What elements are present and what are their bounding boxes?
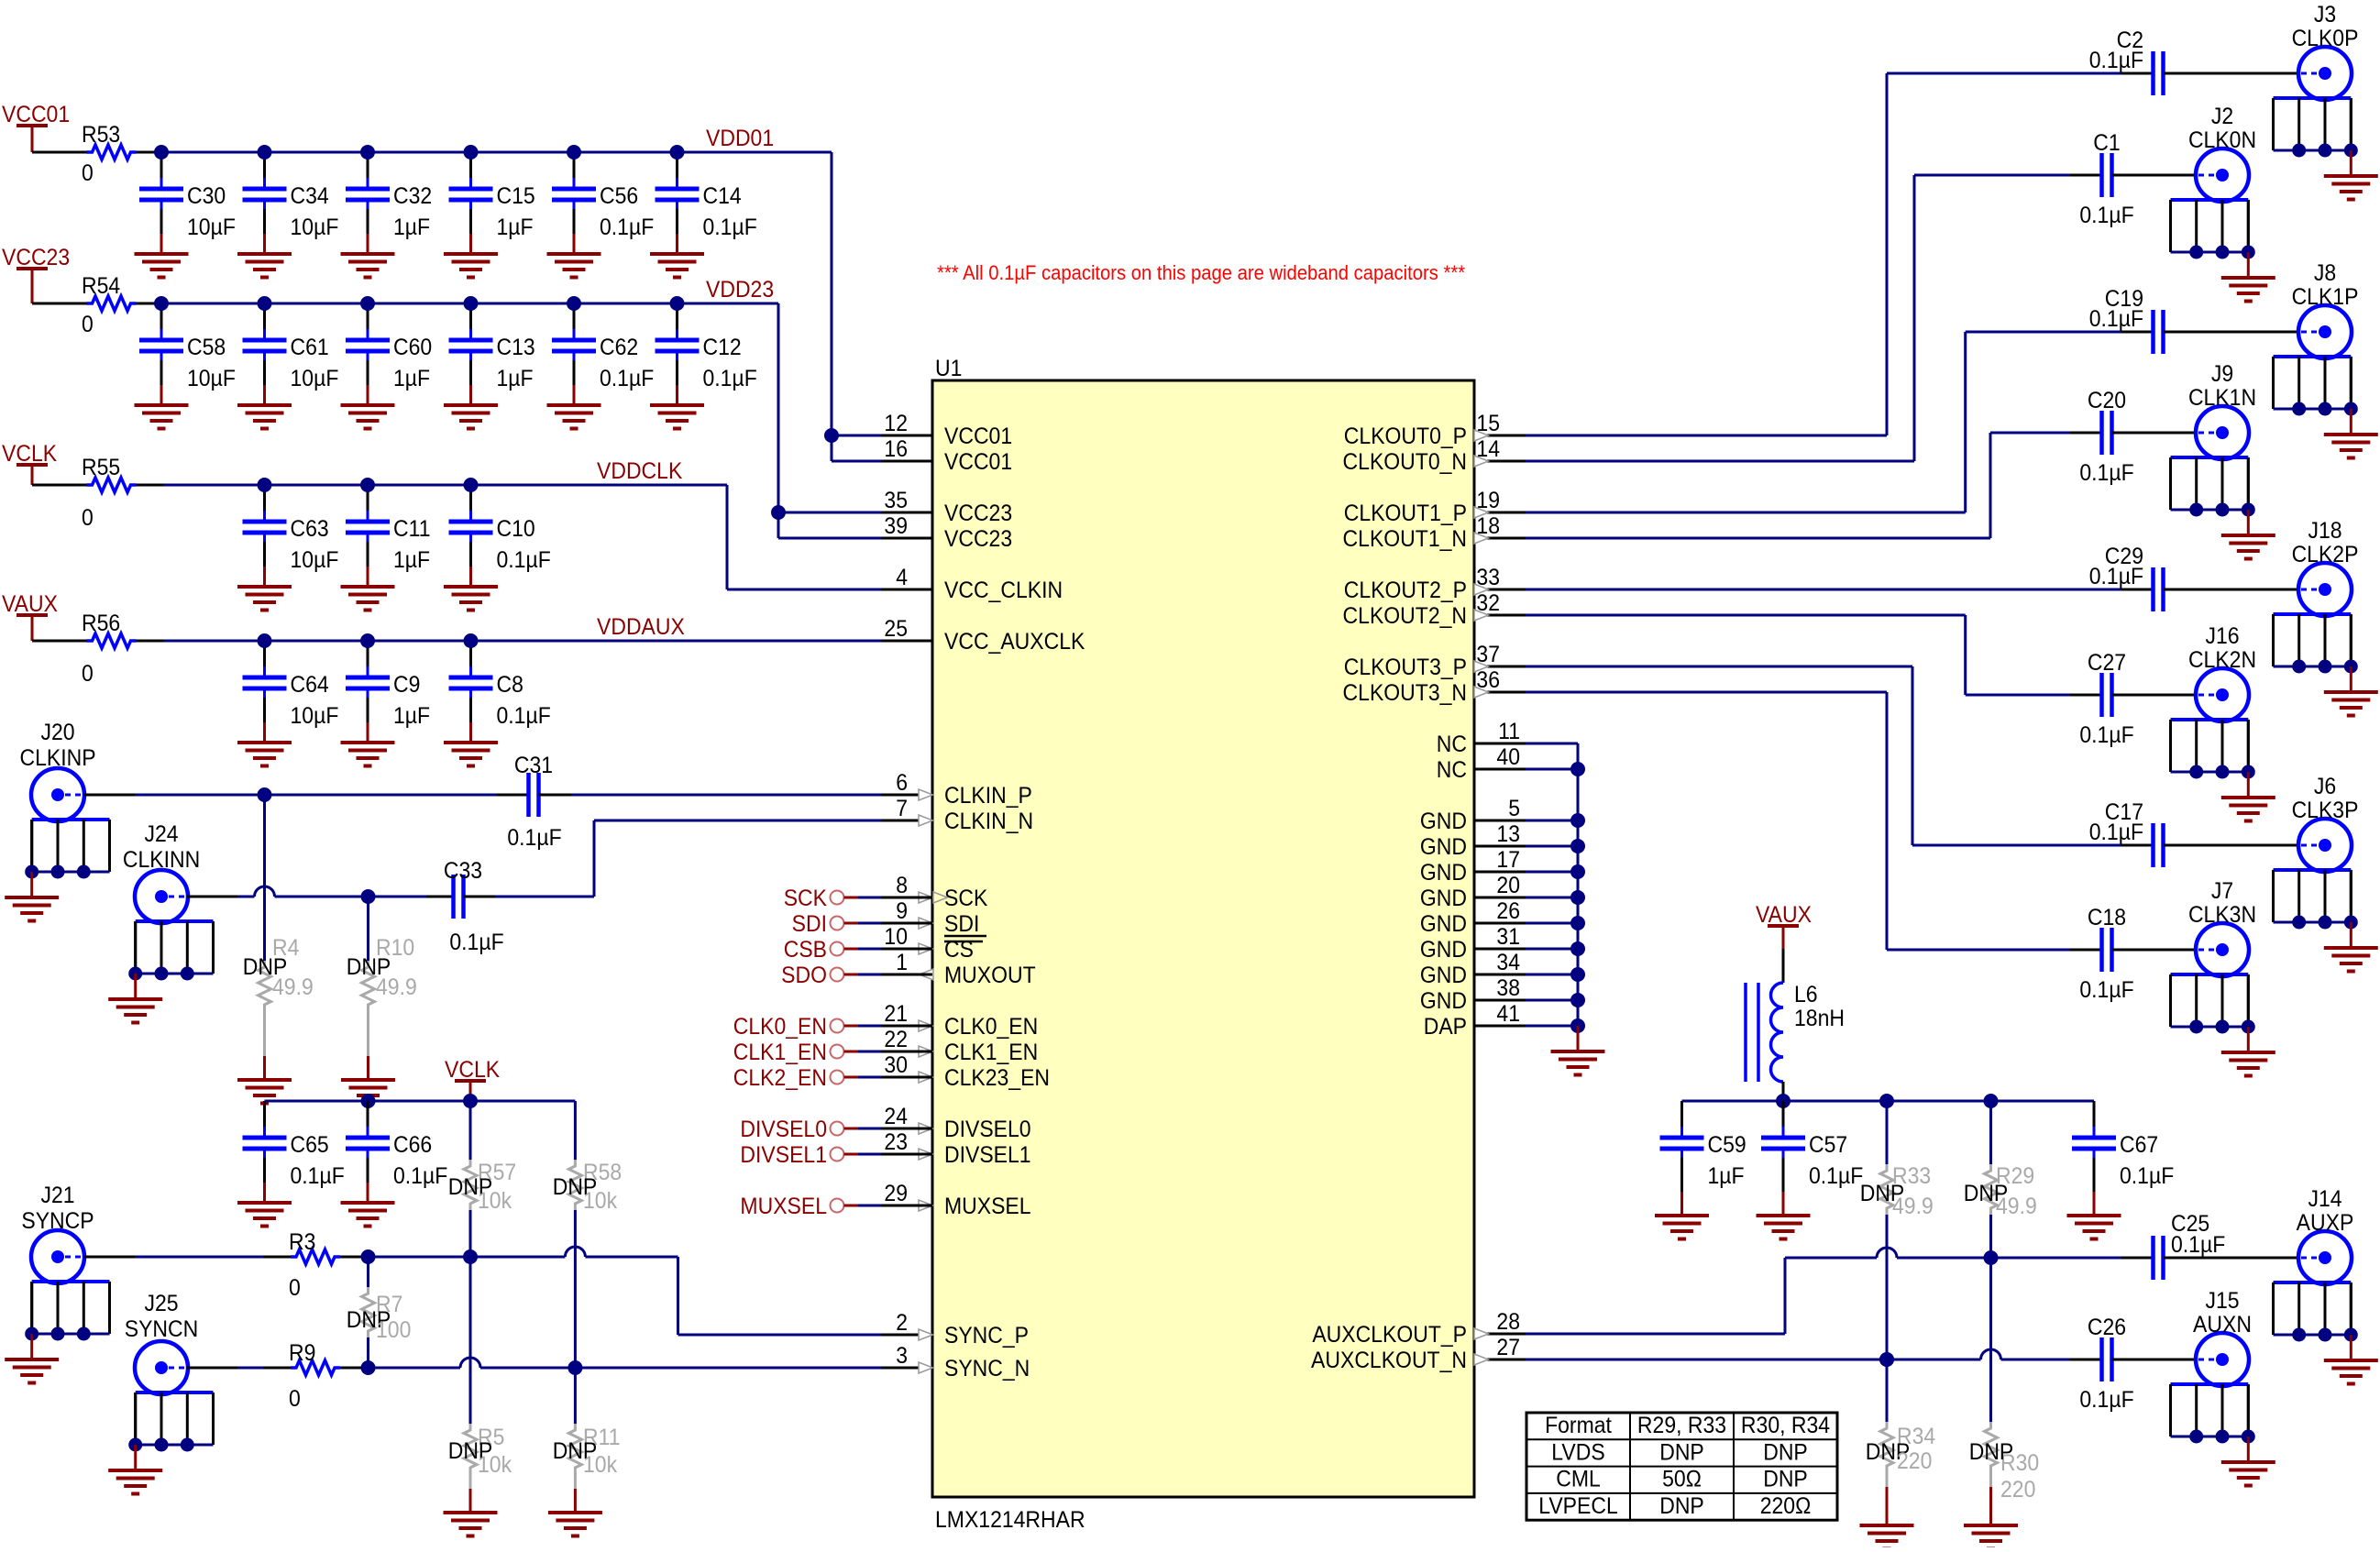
svg-text:J25: J25 — [144, 1291, 178, 1316]
svg-text:49.9: 49.9 — [1996, 1194, 2037, 1219]
svg-text:AUXCLKOUT_N: AUXCLKOUT_N — [1311, 1348, 1467, 1373]
svg-text:C10: C10 — [497, 516, 535, 542]
svg-text:SCK: SCK — [784, 886, 827, 911]
svg-text:0.1µF: 0.1µF — [2079, 460, 2133, 486]
svg-text:1µF: 1µF — [497, 366, 534, 391]
svg-text:AUXN: AUXN — [2193, 1312, 2252, 1337]
svg-text:CML: CML — [1556, 1467, 1601, 1492]
svg-text:C11: C11 — [393, 516, 430, 542]
svg-text:C30: C30 — [187, 183, 226, 209]
svg-text:0: 0 — [82, 160, 94, 186]
svg-text:13: 13 — [1496, 821, 1520, 847]
svg-text:0.1µF: 0.1µF — [2079, 722, 2133, 748]
svg-text:CLK3P: CLK3P — [2292, 798, 2359, 823]
svg-text:10k: 10k — [478, 1188, 512, 1214]
svg-text:9: 9 — [896, 898, 908, 924]
svg-text:35: 35 — [884, 488, 908, 513]
svg-text:MUXOUT: MUXOUT — [944, 963, 1036, 988]
svg-text:C33: C33 — [444, 858, 482, 884]
svg-text:J9: J9 — [2211, 361, 2233, 387]
svg-text:49.9: 49.9 — [1892, 1194, 1934, 1219]
svg-text:0.1µF: 0.1µF — [2120, 1163, 2174, 1189]
svg-text:C66: C66 — [393, 1132, 432, 1158]
svg-text:17: 17 — [1496, 847, 1520, 873]
svg-text:DIVSEL0: DIVSEL0 — [944, 1117, 1031, 1142]
svg-text:GND: GND — [1420, 988, 1467, 1014]
svg-text:0.1µF: 0.1µF — [600, 215, 654, 240]
svg-text:DIVSEL1: DIVSEL1 — [944, 1142, 1031, 1168]
svg-text:34: 34 — [1496, 950, 1520, 975]
svg-text:CLKOUT0_N: CLKOUT0_N — [1343, 449, 1467, 475]
svg-text:220: 220 — [1897, 1448, 1932, 1474]
svg-text:SYNC_P: SYNC_P — [944, 1323, 1029, 1348]
svg-text:31: 31 — [1496, 924, 1520, 950]
svg-text:C65: C65 — [291, 1132, 329, 1158]
svg-text:CLK2P: CLK2P — [2292, 542, 2359, 567]
svg-text:R9: R9 — [289, 1340, 315, 1366]
svg-text:CLKINN: CLKINN — [123, 847, 200, 873]
svg-text:CLKINP: CLKINP — [19, 745, 95, 771]
svg-text:C1: C1 — [2093, 130, 2120, 156]
svg-text:J2: J2 — [2211, 104, 2233, 129]
svg-text:1µF: 1µF — [393, 215, 430, 240]
svg-text:0.1µF: 0.1µF — [2171, 1232, 2225, 1258]
svg-text:26: 26 — [1496, 898, 1520, 924]
svg-text:*** All 0.1µF capacitors on th: *** All 0.1µF capacitors on this page ar… — [937, 262, 1465, 284]
svg-text:0: 0 — [289, 1275, 301, 1301]
svg-text:VCC01: VCC01 — [944, 424, 1012, 449]
svg-text:GND: GND — [1420, 963, 1467, 988]
svg-text:GND: GND — [1420, 809, 1467, 834]
svg-text:C61: C61 — [291, 335, 329, 360]
svg-text:0: 0 — [82, 505, 94, 531]
svg-text:0: 0 — [289, 1386, 301, 1412]
svg-text:J14: J14 — [2308, 1186, 2341, 1212]
svg-text:10µF: 10µF — [187, 215, 236, 240]
svg-text:0.1µF: 0.1µF — [2089, 48, 2143, 73]
svg-text:10k: 10k — [583, 1188, 618, 1214]
svg-text:J3: J3 — [2314, 2, 2336, 28]
svg-text:AUXP: AUXP — [2297, 1210, 2354, 1236]
svg-text:CLKOUT3_P: CLKOUT3_P — [1344, 655, 1467, 680]
svg-text:3: 3 — [896, 1343, 908, 1369]
svg-text:C57: C57 — [1809, 1132, 1847, 1158]
svg-text:2: 2 — [896, 1310, 908, 1336]
svg-text:49.9: 49.9 — [272, 974, 314, 1000]
svg-text:GND: GND — [1420, 937, 1467, 963]
svg-text:CLK1_EN: CLK1_EN — [944, 1040, 1038, 1065]
svg-text:0.1µF: 0.1µF — [1809, 1163, 1863, 1189]
svg-text:CSB: CSB — [784, 937, 827, 963]
svg-text:GND: GND — [1420, 860, 1467, 886]
svg-text:SDI: SDI — [792, 911, 827, 937]
svg-text:VCC01: VCC01 — [2, 102, 70, 127]
svg-text:21: 21 — [884, 1001, 908, 1027]
svg-text:SYNCN: SYNCN — [125, 1316, 199, 1342]
svg-text:MUXSEL: MUXSEL — [740, 1194, 827, 1219]
svg-text:C20: C20 — [2088, 388, 2126, 413]
svg-text:220: 220 — [2000, 1477, 2035, 1502]
svg-text:24: 24 — [884, 1104, 908, 1129]
svg-text:28: 28 — [1496, 1309, 1520, 1335]
svg-text:20: 20 — [1496, 873, 1520, 898]
svg-text:CLK23_EN: CLK23_EN — [944, 1065, 1050, 1091]
svg-text:10µF: 10µF — [187, 366, 236, 391]
svg-text:VCLK: VCLK — [2, 441, 57, 467]
svg-text:VCC01: VCC01 — [944, 449, 1012, 475]
svg-text:DIVSEL1: DIVSEL1 — [740, 1142, 827, 1168]
svg-text:CLKOUT1_N: CLKOUT1_N — [1343, 526, 1467, 552]
svg-text:GND: GND — [1420, 886, 1467, 911]
svg-text:0.1µF: 0.1µF — [703, 215, 757, 240]
svg-text:10k: 10k — [478, 1452, 512, 1478]
svg-text:NC: NC — [1437, 757, 1467, 783]
svg-text:0.1µF: 0.1µF — [2089, 306, 2143, 332]
svg-text:12: 12 — [884, 411, 908, 436]
svg-text:5: 5 — [1508, 796, 1520, 821]
svg-text:30: 30 — [884, 1052, 908, 1078]
svg-text:NC: NC — [1437, 732, 1467, 757]
svg-text:C34: C34 — [291, 183, 329, 209]
svg-text:J21: J21 — [40, 1183, 74, 1208]
svg-text:DNP: DNP — [1969, 1439, 2014, 1465]
svg-text:C14: C14 — [703, 183, 742, 209]
svg-text:U1: U1 — [935, 356, 962, 381]
svg-text:DNP: DNP — [1659, 1439, 1704, 1465]
svg-text:CLKOUT1_P: CLKOUT1_P — [1344, 501, 1467, 526]
svg-text:VAUX: VAUX — [1756, 902, 1812, 928]
svg-text:CLK0N: CLK0N — [2188, 127, 2256, 153]
svg-text:VDDAUX: VDDAUX — [597, 614, 685, 640]
svg-text:VCC23: VCC23 — [944, 501, 1012, 526]
svg-text:C12: C12 — [703, 335, 742, 360]
svg-text:C8: C8 — [497, 672, 523, 698]
svg-text:LVDS: LVDS — [1551, 1439, 1604, 1465]
svg-text:Format: Format — [1545, 1413, 1612, 1438]
svg-text:R56: R56 — [82, 611, 120, 636]
svg-text:10k: 10k — [583, 1452, 618, 1478]
svg-text:0.1µF: 0.1µF — [2089, 820, 2143, 845]
svg-text:VCC_CLKIN: VCC_CLKIN — [944, 578, 1063, 603]
svg-text:1: 1 — [896, 950, 908, 975]
svg-text:0: 0 — [82, 661, 94, 687]
svg-text:SDO: SDO — [781, 963, 827, 988]
svg-text:49.9: 49.9 — [376, 974, 417, 1000]
svg-text:50Ω: 50Ω — [1662, 1467, 1702, 1492]
svg-text:LMX1214RHAR: LMX1214RHAR — [935, 1507, 1085, 1533]
svg-text:39: 39 — [884, 513, 908, 539]
svg-text:8: 8 — [896, 873, 908, 898]
svg-text:CLKIN_N: CLKIN_N — [944, 809, 1033, 834]
svg-text:VDD23: VDD23 — [706, 277, 774, 303]
svg-text:27: 27 — [1496, 1335, 1520, 1360]
svg-text:0.1µF: 0.1µF — [497, 547, 551, 573]
svg-text:R55: R55 — [82, 455, 120, 480]
svg-text:J20: J20 — [40, 720, 74, 745]
svg-text:1µF: 1µF — [393, 703, 430, 729]
svg-text:C67: C67 — [2120, 1132, 2158, 1158]
svg-text:CLK1N: CLK1N — [2188, 385, 2256, 411]
svg-text:0.1µF: 0.1µF — [449, 930, 503, 955]
svg-text:6: 6 — [896, 770, 908, 796]
svg-text:J16: J16 — [2205, 623, 2239, 649]
svg-text:CLKOUT2_N: CLKOUT2_N — [1343, 603, 1467, 629]
svg-text:16: 16 — [884, 436, 908, 462]
svg-text:CLK1_EN: CLK1_EN — [733, 1040, 827, 1065]
svg-text:CLKOUT0_P: CLKOUT0_P — [1344, 424, 1467, 449]
svg-text:10: 10 — [884, 924, 908, 950]
svg-text:0.1µF: 0.1µF — [2079, 203, 2133, 228]
svg-text:R53: R53 — [82, 122, 120, 148]
svg-text:0.1µF: 0.1µF — [393, 1163, 447, 1189]
svg-text:CLK3N: CLK3N — [2188, 902, 2256, 928]
svg-text:0.1µF: 0.1µF — [291, 1163, 345, 1189]
svg-text:C59: C59 — [1708, 1132, 1746, 1158]
svg-text:0.1µF: 0.1µF — [2089, 564, 2143, 589]
svg-text:J24: J24 — [144, 821, 178, 847]
svg-text:CLKOUT3_N: CLKOUT3_N — [1343, 680, 1467, 706]
svg-text:0.1µF: 0.1µF — [507, 825, 561, 851]
svg-text:VDD01: VDD01 — [706, 126, 774, 151]
svg-text:R3: R3 — [289, 1229, 315, 1255]
svg-text:DNP: DNP — [1659, 1493, 1704, 1519]
svg-text:0: 0 — [82, 312, 94, 337]
svg-text:C58: C58 — [187, 335, 226, 360]
svg-text:0.1µF: 0.1µF — [600, 366, 654, 391]
svg-text:DNP: DNP — [1763, 1467, 1808, 1492]
svg-text:CLK0_EN: CLK0_EN — [944, 1014, 1038, 1040]
svg-text:SDI: SDI — [944, 911, 979, 937]
svg-text:DNP: DNP — [1763, 1439, 1808, 1465]
svg-text:CLK0_EN: CLK0_EN — [733, 1014, 827, 1040]
svg-text:J18: J18 — [2308, 518, 2341, 544]
svg-text:R54: R54 — [82, 273, 120, 299]
svg-text:DAP: DAP — [1424, 1014, 1467, 1040]
svg-text:J15: J15 — [2205, 1288, 2239, 1314]
svg-text:GND: GND — [1420, 911, 1467, 937]
svg-text:GND: GND — [1420, 834, 1467, 860]
svg-text:CLK2_EN: CLK2_EN — [733, 1065, 827, 1091]
svg-text:7: 7 — [896, 796, 908, 821]
svg-text:VDDCLK: VDDCLK — [597, 458, 682, 484]
svg-text:1µF: 1µF — [393, 547, 430, 573]
svg-text:1µF: 1µF — [393, 366, 430, 391]
svg-text:CLKIN_P: CLKIN_P — [944, 783, 1032, 809]
svg-text:C27: C27 — [2088, 650, 2126, 676]
svg-text:C32: C32 — [393, 183, 432, 209]
svg-text:10µF: 10µF — [291, 703, 339, 729]
svg-text:23: 23 — [884, 1129, 908, 1155]
svg-text:AUXCLKOUT_P: AUXCLKOUT_P — [1312, 1322, 1467, 1348]
svg-text:C60: C60 — [393, 335, 432, 360]
svg-text:10µF: 10µF — [291, 215, 339, 240]
svg-text:40: 40 — [1496, 744, 1520, 770]
svg-text:SCK: SCK — [944, 886, 987, 911]
svg-text:C63: C63 — [291, 516, 329, 542]
svg-text:C9: C9 — [393, 672, 420, 698]
svg-text:LVPECL: LVPECL — [1538, 1493, 1617, 1519]
svg-text:C31: C31 — [514, 753, 553, 778]
svg-text:0.1µF: 0.1µF — [2079, 977, 2133, 1003]
svg-text:C62: C62 — [600, 335, 638, 360]
svg-text:100: 100 — [376, 1317, 411, 1343]
svg-text:C64: C64 — [291, 672, 329, 698]
svg-text:R29, R33: R29, R33 — [1637, 1413, 1726, 1438]
svg-text:SYNCP: SYNCP — [21, 1208, 94, 1234]
svg-text:SYNC_N: SYNC_N — [944, 1356, 1030, 1381]
svg-text:DIVSEL0: DIVSEL0 — [740, 1117, 827, 1142]
svg-text:0.1µF: 0.1µF — [497, 703, 551, 729]
svg-text:CLK0P: CLK0P — [2292, 26, 2359, 51]
svg-text:38: 38 — [1496, 975, 1520, 1001]
svg-text:C13: C13 — [497, 335, 535, 360]
svg-text:41: 41 — [1496, 1001, 1520, 1027]
svg-text:L6: L6 — [1794, 982, 1818, 1007]
svg-text:0.1µF: 0.1µF — [703, 366, 757, 391]
svg-text:22: 22 — [884, 1027, 908, 1052]
svg-text:29: 29 — [884, 1181, 908, 1206]
svg-text:C26: C26 — [2088, 1315, 2126, 1340]
svg-text:J8: J8 — [2314, 260, 2336, 286]
svg-text:1µF: 1µF — [1708, 1163, 1745, 1189]
svg-text:CLK1P: CLK1P — [2292, 284, 2359, 310]
svg-text:VCC23: VCC23 — [944, 526, 1012, 552]
svg-text:VCC23: VCC23 — [2, 245, 70, 270]
svg-text:CLK2N: CLK2N — [2188, 647, 2256, 673]
svg-text:25: 25 — [884, 616, 908, 642]
svg-text:10µF: 10µF — [291, 366, 339, 391]
svg-text:4: 4 — [896, 565, 908, 590]
svg-text:MUXSEL: MUXSEL — [944, 1194, 1031, 1219]
svg-text:VAUX: VAUX — [2, 591, 58, 617]
svg-text:VCC_AUXCLK: VCC_AUXCLK — [944, 629, 1085, 655]
svg-text:0.1µF: 0.1µF — [2079, 1387, 2133, 1413]
svg-text:10µF: 10µF — [291, 547, 339, 573]
svg-text:CLKOUT2_P: CLKOUT2_P — [1344, 578, 1467, 603]
svg-text:1µF: 1µF — [497, 215, 534, 240]
svg-text:VCLK: VCLK — [445, 1057, 500, 1083]
svg-text:C56: C56 — [600, 183, 638, 209]
svg-text:R30, R34: R30, R34 — [1741, 1413, 1830, 1438]
svg-text:C15: C15 — [497, 183, 535, 209]
svg-text:18nH: 18nH — [1794, 1006, 1845, 1031]
svg-text:11: 11 — [1498, 719, 1520, 744]
svg-text:J6: J6 — [2314, 774, 2336, 799]
svg-text:220Ω: 220Ω — [1760, 1493, 1812, 1519]
svg-text:C18: C18 — [2088, 905, 2126, 930]
svg-text:J7: J7 — [2211, 878, 2233, 904]
